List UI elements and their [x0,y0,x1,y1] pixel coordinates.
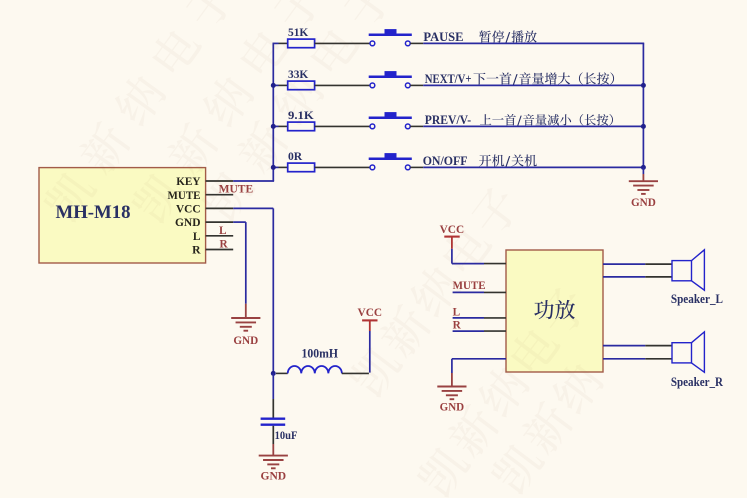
junction right bus [641,124,646,129]
label NEXT/V+ [425,72,614,86]
wire U1 KEY to bus [233,180,274,182]
svg-text:ON/OFF: ON/OFF [423,154,468,168]
wire S4 to right bus [410,166,644,168]
svg-text:Speaker_L: Speaker_L [671,292,723,306]
svg-text:L: L [219,225,227,237]
net label L (U1) [219,225,227,237]
wire amp to LS1 [603,264,672,277]
capacitor C1 10uF [261,419,298,442]
U1 pin R [192,245,233,257]
wire VCC vertical to L1 [272,208,274,373]
svg-text:10uF: 10uF [275,428,298,442]
svg-text:100mH: 100mH [302,347,339,361]
IC U1 MH-M18 body [39,168,206,263]
svg-text:PAUSE: PAUSE [423,30,463,44]
label PAUSE [423,30,536,44]
wire bus to R3 [273,125,288,127]
amplifier U2 body [506,250,603,372]
wire U1 VCC right [233,207,273,209]
svg-text:GND: GND [233,333,258,347]
wire U1 GND [233,222,246,318]
junction left bus [271,165,276,170]
net label R (amp) [453,320,462,332]
wire C1 node down [272,373,274,417]
svg-text:PREV/V-: PREV/V- [425,113,471,127]
watermark 凯新纳电子 [40,0,607,498]
wire amp to LS2 [603,346,672,359]
svg-text:MH-M18: MH-M18 [56,202,131,223]
net label L (amp) [453,306,461,318]
ground GND4 (amp) [437,387,466,414]
wire R4 to S4 [315,166,370,168]
svg-text:GND: GND [261,469,287,483]
speaker Speaker_L [671,250,723,306]
ground GND2 (U1) [231,318,260,347]
resistor R2 33K [288,69,315,90]
svg-text:VCC: VCC [176,204,201,216]
pushbutton S2 [369,71,412,88]
wire S3 to right bus [410,125,644,127]
svg-text:VCC: VCC [358,305,383,319]
svg-text:L: L [453,306,461,318]
power VCC1 (L1) [358,305,383,331]
ground GND3 (C1) [259,456,288,483]
junction left bus [271,83,276,88]
wire L1 to VCC [369,331,371,373]
wire L stub (amp) [453,317,506,319]
resistor R1 51K [288,27,315,47]
U1 pin KEY [176,176,233,188]
svg-text:51K: 51K [288,27,308,39]
wire amp GND [452,359,506,387]
wire MUTE stub (amp) [453,291,506,293]
net label MUTE (amp) [453,280,486,292]
net label R (U1) [220,239,229,251]
label PREV/V- [425,113,613,127]
svg-text:R: R [220,239,229,251]
svg-text:GND: GND [440,400,465,414]
resistor R3 9.1K [288,110,315,131]
wire bus to R4 [273,166,288,168]
svg-text:KEY: KEY [176,176,201,188]
inductor L1 100mH [276,347,369,374]
net label MUTE (U1) [219,183,254,195]
svg-text:GND: GND [631,195,656,209]
label ON/OFF [423,154,537,168]
wire VCC2 to amp [452,249,506,264]
svg-text:NEXT/V+: NEXT/V+ [425,72,472,86]
speaker Speaker_R [671,332,723,389]
svg-text:GND: GND [175,217,201,229]
wire left bus vertical [272,43,274,181]
junction right bus [641,83,646,88]
resistor R4 0R [288,151,315,172]
wire right bus vertical [642,43,644,167]
svg-text:L: L [193,231,201,243]
junction left bus [271,124,276,129]
wire bus to R2 [273,84,288,86]
wire S1 to right bus [410,42,644,44]
pushbutton S3 [369,112,412,129]
svg-text:R: R [453,320,462,332]
wire C1 to ground [272,426,274,456]
svg-text:Speaker_R: Speaker_R [671,375,723,389]
wire bus to R1 [273,42,288,44]
U1 pin VCC [176,204,233,216]
junction right bus [641,165,646,170]
wire S2 to right bus [410,84,644,86]
wire R3 to S3 [315,125,370,127]
power VCC2 (amp) [440,222,465,249]
U1 pin MUTE [168,190,234,202]
U1 pin GND [175,217,233,229]
svg-text:0R: 0R [288,151,303,163]
svg-text:R: R [192,245,201,257]
svg-text:VCC: VCC [440,222,465,236]
wire R2 to S2 [315,84,370,86]
pushbutton S1 [369,29,412,46]
wire R1 to S1 [315,42,370,44]
wire R stub (amp) [453,330,506,332]
ground GND1 (button bus) [629,167,658,208]
junction L1 node [271,371,276,376]
pushbutton S4 [369,153,412,170]
U1 pin L [193,231,233,243]
